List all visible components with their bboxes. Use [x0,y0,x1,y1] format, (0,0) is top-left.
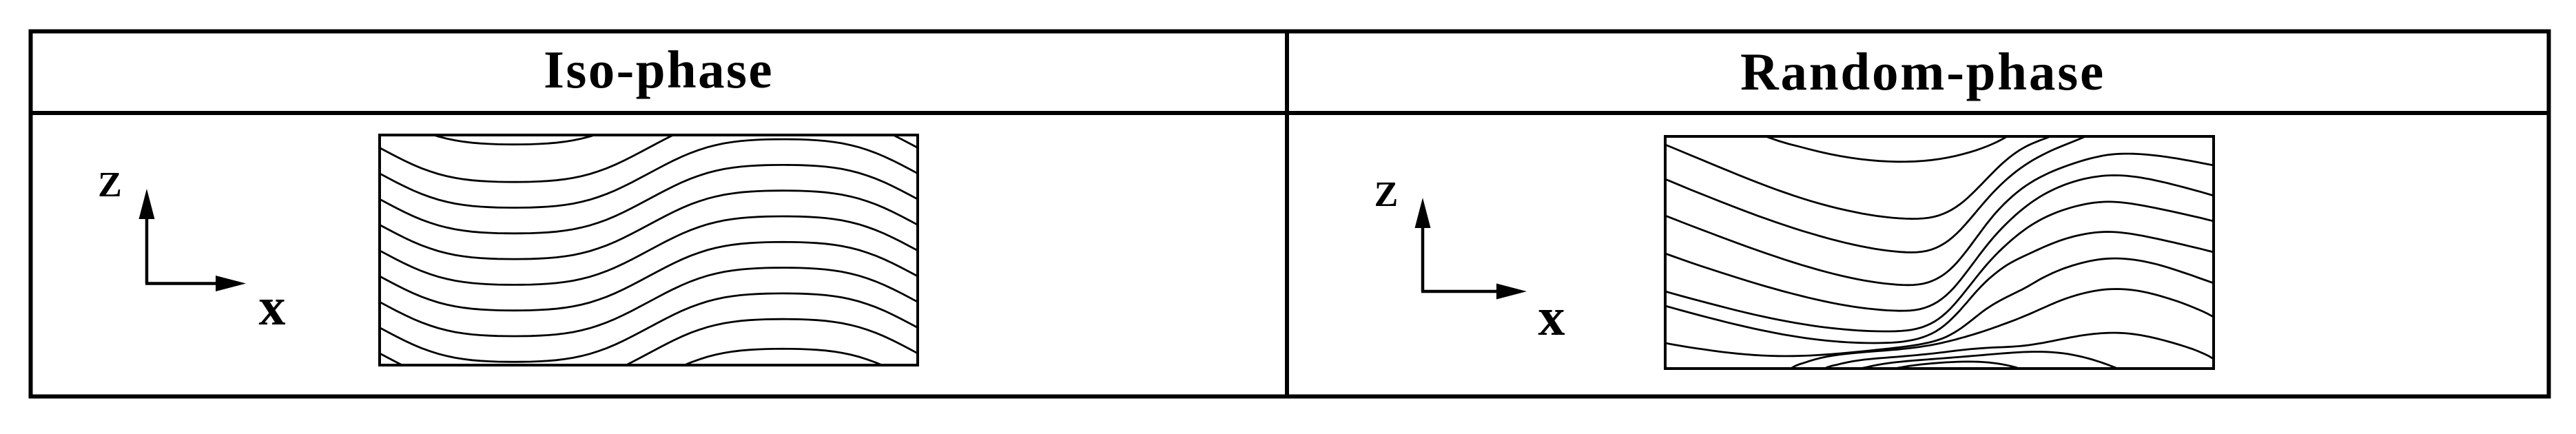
iso wave layer 2 [380,114,918,182]
random wave layer W1 [1786,289,2214,373]
svg-text:x: x [259,276,286,336]
random wave layer A [1665,131,2062,219]
iso wave layer 6 [380,216,918,285]
axis z arrow (vertical) [145,216,149,284]
random wave layer E [1665,202,2214,331]
iso wave layer 11 [380,349,918,417]
random wave layer G [1665,258,2214,356]
header row separator line [29,111,2551,115]
svg-text:Z: Z [1374,175,1399,214]
iso wave layer 10 [380,319,918,387]
axis z arrow (vertical) [1421,225,1425,291]
random wave layer T [1751,130,2017,162]
random-phase panel border [1665,136,2214,369]
svg-text:x: x [1538,287,1565,347]
iso wave layer 9 [380,293,918,362]
random wave layer W3 [1848,352,2130,374]
iso-phase panel border [380,135,918,365]
iso-phase wave panel [380,76,918,417]
random wave layer F [1665,232,2214,344]
random wave layer W4 [1872,362,2041,377]
iso wave layer 5 [380,191,918,259]
iso wave layer 8 [380,268,918,336]
random wave layer W2 [1818,333,2214,372]
axis x arrow (horizontal) [145,282,218,285]
column divider line [1285,30,1289,399]
iso wave layer 4 [380,165,918,233]
axis x arrow (horizontal) [1421,290,1499,293]
svg-text:Z: Z [98,165,122,205]
iso wave layer 1 [380,76,918,144]
random wave layer C [1665,154,2214,285]
iso wave layer 7 [380,242,918,310]
random wave layer B [1665,131,2096,252]
random wave layer D [1665,176,2214,311]
iso wave layer 3 [380,139,918,207]
svg-text:Iso-phase: Iso-phase [544,40,774,99]
random-phase wave panel [1665,130,2214,377]
svg-text:Random-phase: Random-phase [1740,42,2105,101]
